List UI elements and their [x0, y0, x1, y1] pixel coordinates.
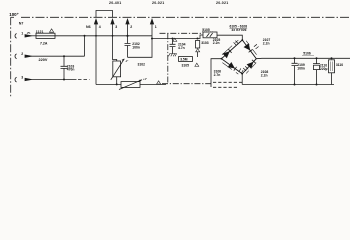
- wire 3102 bottom stub: [116, 77, 118, 85]
- junction dot resistor 3103: [197, 38, 199, 40]
- svg-text:470n: 470n: [67, 68, 75, 72]
- junction dot bridge top: [241, 39, 243, 41]
- svg-text:2.2n: 2.2n: [263, 41, 270, 45]
- junction dot x96: [95, 35, 97, 37]
- riser pin2 to fuse line: [84, 36, 86, 56]
- svg-text:4x BY506: 4x BY506: [232, 28, 247, 32]
- svg-text:3110: 3110: [336, 63, 343, 67]
- svg-text:1: 1: [21, 32, 23, 36]
- N7 pin 1 arrow: [25, 35, 31, 37]
- safety triangle 3105: [195, 63, 199, 66]
- svg-text:5105: 5105: [202, 28, 210, 32]
- N7 pin 1 hook: [27, 32, 30, 35]
- junction dot cap2104: [172, 38, 174, 40]
- junction dot bridge bottom: [241, 73, 243, 75]
- svg-text:1: 1: [155, 25, 157, 29]
- svg-text:220V: 220V: [39, 58, 48, 62]
- N7 pin 2 arrow: [25, 55, 31, 57]
- svg-text:100n: 100n: [297, 67, 305, 71]
- capacitor 2104: [170, 39, 176, 54]
- wire bridge bottom stub: [241, 74, 243, 85]
- N7 pin 2 bracket: [15, 54, 17, 59]
- N7 pin 3 arrow: [25, 78, 31, 80]
- svg-text:3: 3: [115, 25, 117, 29]
- fuse element line: [36, 35, 55, 37]
- thermistor PTC horizontal body: [121, 82, 140, 88]
- bridge snubber loop bottom-left: [222, 63, 238, 75]
- capacitor 2103: [61, 56, 68, 79]
- svg-text:3105: 3105: [182, 64, 190, 68]
- svg-text:100⁺: 100⁺: [9, 12, 19, 17]
- wire fuse output line: [55, 35, 152, 37]
- svg-text:2: 2: [21, 52, 23, 56]
- bridge cap top-left: [234, 41, 239, 46]
- N6 bracket to switch: [96, 11, 113, 18]
- junction dot 3110 top: [331, 57, 333, 59]
- wire bottom output rail: [242, 84, 334, 86]
- N6 pin 3 arrow: [111, 19, 114, 24]
- wire pin1 to fuse: [31, 35, 36, 37]
- N7 pin 1 bracket: [15, 34, 17, 39]
- junction dot x83.5: [84, 35, 86, 37]
- inductor 5105 marks: [207, 33, 213, 37]
- wire N6 pin2 vertical: [127, 23, 129, 44]
- resistor 3103: [196, 41, 200, 49]
- junction dot 2110 top: [316, 57, 318, 59]
- inductor 5105 label dotted underline: [202, 31, 214, 33]
- wire pin3 dashed continuation: [78, 79, 90, 81]
- svg-text:3.5M: 3.5M: [180, 58, 188, 62]
- N6 pin 2 arrow: [126, 19, 129, 24]
- wire pin3 row: [31, 79, 77, 81]
- thermistor 3102 vertical body: [113, 61, 121, 77]
- bridge cap top-right: [254, 44, 259, 49]
- inductor 5106 dotted underline: [303, 55, 315, 57]
- thermistor PTC diagonal: [119, 80, 142, 90]
- wire 3110 bottom stub: [331, 73, 333, 85]
- N6 pin 1 arrow: [150, 19, 153, 24]
- svg-text:3: 3: [21, 75, 23, 79]
- junction dot x127.5: [126, 35, 128, 37]
- svg-text:3103: 3103: [201, 41, 209, 45]
- junction dot rail 2109: [294, 84, 296, 86]
- wire N6 pin4 vertical: [95, 23, 97, 85]
- svg-text:4: 4: [99, 25, 101, 29]
- svg-text:2.2n: 2.2n: [213, 41, 220, 45]
- wire 5105 to bridge top: [217, 35, 242, 40]
- svg-text:5106: 5106: [303, 52, 311, 56]
- junction dot cap2103 bottom: [63, 79, 65, 81]
- junction dot degauss: [116, 83, 118, 85]
- degauss unit dash-dot box top: [160, 32, 204, 34]
- thermistor 3102 diagonal: [111, 59, 125, 80]
- svg-text:20-021: 20-021: [152, 1, 164, 5]
- corner tick: [11, 16, 14, 18]
- svg-text:N7: N7: [19, 21, 24, 25]
- fuse safety triangle: [50, 29, 54, 32]
- bridge snubber loop top-right: [246, 41, 256, 55]
- degauss unit dash-dot box bottom: [162, 83, 211, 85]
- safety triangle degauss: [157, 81, 161, 84]
- junction dot cap2103 top: [63, 55, 65, 57]
- N7 pin 3 bracket: [15, 77, 17, 82]
- degauss unit dash-dot box left: [167, 33, 169, 84]
- junction dot rail 2110: [316, 84, 318, 86]
- bridge diode 6107 (bottom-left arm): [228, 63, 234, 68]
- capacitor 2110 electrolytic: [313, 58, 320, 84]
- inductor 5105 body: [203, 32, 217, 38]
- wire 2102 to pin1 node: [128, 39, 153, 58]
- bridge cap bottom-left: [239, 68, 243, 73]
- svg-text:220µ: 220µ: [320, 67, 328, 71]
- svg-text:2: 2: [130, 25, 132, 29]
- wire 3103 bottom stub: [197, 52, 199, 57]
- fuse 1121 body: [36, 33, 55, 38]
- bridge diode 6106 (top-right arm): [244, 44, 249, 50]
- svg-text:7.2A: 7.2A: [40, 41, 48, 45]
- svg-text:20-401: 20-401: [109, 1, 121, 5]
- capacitor 2102: [125, 44, 131, 58]
- bridge snubber loop top-left: [222, 40, 238, 55]
- svg-text:2.7n: 2.7n: [214, 73, 221, 77]
- junction dot bridge left: [221, 58, 223, 60]
- wire degauss rail: [96, 84, 121, 86]
- left boundary dash-dot line: [10, 17, 12, 97]
- capacitor 2109: [292, 58, 298, 84]
- wire PTC to boundary: [140, 84, 166, 86]
- N6 pin 4 arrow: [94, 19, 97, 24]
- junction dot x152: [151, 38, 153, 40]
- wire switched line feed: [152, 35, 203, 39]
- svg-text:20-021: 20-021: [216, 1, 228, 5]
- wire N6 pin1 vertical: [151, 23, 153, 39]
- svg-text:N6: N6: [86, 25, 91, 29]
- chassis ground: [168, 54, 176, 57]
- bridge diode 6105 (top-left arm): [223, 52, 229, 58]
- wire bridge right output: [256, 57, 350, 59]
- bridge diode 6108 (bottom-right arm): [247, 62, 253, 68]
- svg-text:3102: 3102: [138, 63, 146, 67]
- safety triangle 2104: [173, 38, 177, 41]
- bridge cap bottom-right: [243, 66, 248, 71]
- resistor 3110: [329, 60, 335, 73]
- boxed value 3.5M (safety): [179, 57, 193, 62]
- degauss coil dashed link upper: [213, 81, 242, 83]
- bridge diamond: [222, 40, 257, 74]
- svg-text:4.7n: 4.7n: [178, 46, 185, 50]
- junction dot x112.5: [112, 35, 114, 37]
- junction dot 2109 top: [294, 57, 296, 59]
- svg-text:100n: 100n: [132, 45, 140, 49]
- wire 3102 top stub: [113, 23, 117, 61]
- bridge snubber loop bottom-right: [246, 63, 256, 74]
- safety triangle 3103: [196, 49, 200, 52]
- top boundary dash-dot line: [21, 16, 350, 18]
- wire bridge left corner to degauss: [211, 59, 222, 87]
- degauss coil dashed link lower: [213, 86, 239, 88]
- wire pin2 row: [31, 55, 85, 57]
- svg-text:2.2n: 2.2n: [261, 73, 268, 77]
